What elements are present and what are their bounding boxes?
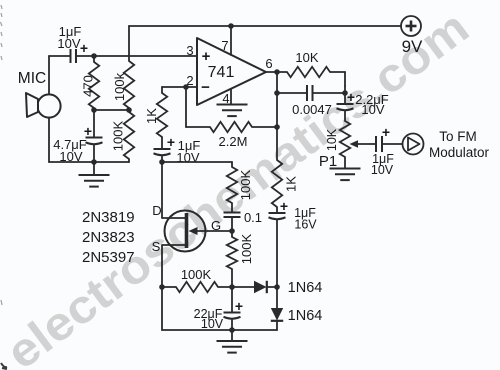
op-amp U1 741 [197, 38, 266, 105]
resistor R1 470 [89, 62, 99, 108]
label C6 value [371, 152, 394, 177]
wire to D1 [232, 286, 254, 288]
label pin3 [186, 43, 193, 58]
label pin6 [265, 56, 272, 71]
ground left [79, 175, 110, 187]
node R9 bottom [229, 284, 235, 290]
svg-text:100K: 100K [181, 267, 212, 282]
resistor R7 1K [272, 160, 282, 207]
label MIC [18, 70, 46, 87]
wire R2 bottom stub [128, 108, 130, 110]
wire C3 bottom [161, 156, 163, 163]
label 0.1 [244, 210, 262, 225]
label C5 value [355, 92, 389, 117]
label 1N64 upper [288, 280, 323, 296]
label C2 value [53, 137, 87, 164]
wire bottom rail [162, 287, 277, 330]
wire R4 to C3 [161, 137, 163, 148]
plus C6 [382, 124, 390, 140]
label P1 [319, 153, 337, 170]
label To FM Modulator [429, 129, 490, 160]
svg-text:1N64: 1N64 [288, 308, 323, 324]
svg-text:D: D [152, 203, 161, 218]
wire bottom-left rail [49, 161, 129, 163]
node cap/R1 junction [91, 53, 97, 59]
wire source vert [161, 245, 163, 287]
wire gate to R9 [231, 231, 233, 237]
svg-text:100K: 100K [111, 120, 126, 151]
label 9V [402, 37, 423, 56]
node bottom rail gnd [229, 327, 235, 333]
svg-text:10K: 10K [295, 50, 318, 65]
label pin7 [221, 38, 228, 53]
wire 2.2M left vert [185, 87, 187, 127]
label 100K bottom [181, 267, 212, 282]
wire R1-R2 bottoms [94, 109, 129, 111]
label 0.0047 [292, 102, 332, 117]
capacitor C6 1uF out [376, 136, 382, 152]
wire R7 to C7 [276, 207, 278, 212]
svg-text:+: + [382, 124, 390, 140]
plus C3 [167, 134, 175, 150]
svg-text:+: + [202, 48, 211, 65]
resistor R4 1K [157, 93, 167, 137]
ground bottom [217, 341, 248, 353]
wire R2 top from rail [128, 26, 130, 61]
svg-text:10V: 10V [57, 36, 80, 51]
node R2 bottom [126, 107, 132, 113]
potentiometer P1 10K [340, 121, 350, 157]
pot wiper arrow [350, 140, 377, 148]
label 2.2M [219, 134, 248, 149]
node source bottom [159, 284, 165, 290]
label pin4 [222, 91, 229, 106]
wire R1 top stub [93, 56, 95, 62]
wire C4 right lead [313, 92, 346, 94]
wire R8 to C8 [231, 203, 233, 212]
svg-text:10K: 10K [325, 128, 339, 151]
node 2.2M right [274, 124, 280, 130]
wire R9 bottom [231, 269, 233, 287]
capacitor C4 0.0047 [307, 85, 313, 101]
wire mic top [48, 56, 50, 94]
svg-text:Modulator: Modulator [429, 145, 490, 160]
svg-text:10V: 10V [201, 317, 224, 331]
wire gnd stem left [93, 162, 95, 175]
node gnd-left junction [91, 159, 97, 165]
wire 2.2M left [186, 126, 210, 128]
wire D2 bottom [276, 321, 278, 330]
svg-text:2.2M: 2.2M [219, 134, 248, 149]
label 1K left [144, 108, 159, 124]
wire R3 bottom stub [128, 159, 130, 162]
transistor Q1 JFET [162, 211, 206, 252]
svg-text:MIC: MIC [18, 70, 46, 87]
node diodes junction [274, 284, 280, 290]
svg-text:741: 741 [208, 64, 235, 81]
capacitor C8 0.1 [224, 213, 241, 218]
plus C9 [235, 298, 243, 314]
wire C7 bottom [276, 220, 278, 288]
plus C5 [347, 89, 355, 105]
label C7 value [294, 206, 317, 232]
wire pin4 [230, 89, 232, 104]
svg-text:+: + [347, 89, 355, 105]
wire 10K right [330, 72, 345, 86]
microphone MIC symbol [26, 93, 61, 118]
battery B1 9V [401, 16, 421, 36]
svg-text:16V: 16V [294, 218, 317, 232]
diode D1 1N64 [254, 281, 267, 293]
label S [152, 239, 161, 254]
svg-text:10V: 10V [371, 163, 394, 177]
resistor R10 100K [176, 282, 218, 292]
node R1 bottom [91, 107, 97, 113]
plus C1 [80, 40, 88, 56]
diode D2 1N64 [271, 287, 283, 321]
wire drain vert [161, 162, 163, 218]
wire D1 to node [267, 286, 277, 288]
label 100K mid-lower [239, 233, 254, 264]
wire V+ rail [129, 25, 401, 27]
svg-text:10V: 10V [361, 102, 384, 117]
resistor R2 100k [124, 61, 134, 108]
wire C1 to pin3 [76, 55, 197, 57]
node pin2 junction [183, 84, 189, 90]
wire output [266, 71, 287, 73]
svg-text:100K: 100K [238, 169, 253, 200]
wire mid branch top [162, 161, 232, 163]
svg-text:1K: 1K [284, 176, 299, 192]
label C1 value [57, 24, 81, 51]
wire pot gnd stem [344, 157, 346, 169]
svg-text:3: 3 [186, 43, 193, 58]
connector to FM modulator [403, 134, 424, 155]
node C4 left [274, 90, 280, 96]
svg-text:100K: 100K [239, 233, 254, 264]
svg-text:+: + [80, 40, 88, 56]
label 2N3819 2N3823 2N5397 [82, 209, 135, 266]
wire C9 bottom [231, 319, 233, 330]
label 1N64 lower [288, 308, 323, 324]
label G [211, 218, 221, 233]
wire C2 bottom [93, 145, 95, 163]
capacitor C9 22uF [224, 313, 241, 319]
label 100k [112, 72, 127, 101]
resistor R5 2.2M [210, 122, 252, 132]
svg-text:2N3819: 2N3819 [82, 209, 135, 226]
label 470 [81, 75, 96, 97]
wire R10 left [162, 286, 176, 288]
svg-text:To FM: To FM [439, 129, 477, 144]
wire 2.2M right [252, 126, 277, 128]
capacitor C3 1uF [154, 149, 171, 155]
label D [152, 203, 161, 218]
ground op-amp [217, 105, 248, 117]
label C3 value [176, 138, 200, 165]
svg-text:G: G [211, 218, 221, 233]
wire pin7 [230, 26, 232, 55]
wire C6 to jack [382, 143, 403, 145]
label C9 value [194, 307, 224, 331]
label 100K mid-upper [238, 169, 253, 200]
svg-text:7: 7 [221, 38, 228, 53]
plus C2 [84, 123, 92, 139]
svg-text:0.0047: 0.0047 [292, 102, 332, 117]
svg-text:2N5397: 2N5397 [82, 249, 135, 266]
wire C4 left lead [277, 92, 307, 94]
wire pin2 [162, 86, 197, 88]
label 10K top [295, 50, 318, 65]
node pin7 rail [228, 23, 234, 29]
label 100K left [111, 120, 126, 151]
wire C8 bottom [231, 217, 233, 231]
svg-text:10V: 10V [59, 149, 82, 164]
svg-text:S: S [152, 239, 161, 254]
label 1K right [284, 176, 299, 192]
svg-text:−: − [201, 79, 210, 96]
wire out vert upper [276, 72, 278, 160]
svg-text:9V: 9V [402, 37, 423, 56]
svg-text:+: + [280, 198, 288, 214]
wire R1 bottom stub [93, 108, 95, 110]
svg-text:2N3823: 2N3823 [82, 229, 135, 246]
wire C5 top [344, 86, 346, 103]
capacitor C1 1uF input [71, 49, 77, 63]
node output 6 [274, 69, 280, 75]
ground pot [330, 169, 361, 181]
svg-text:0.1: 0.1 [244, 210, 262, 225]
wire C5 bottom [344, 111, 346, 122]
svg-text:6: 6 [265, 56, 272, 71]
label pin2 [186, 73, 193, 88]
wire gnd stem bottom [231, 330, 233, 341]
wire C9 top [231, 287, 233, 312]
wire R8 top stub [231, 162, 233, 167]
wire C2 top [93, 110, 95, 137]
wire mic to C1 [49, 55, 70, 57]
label 10K pot [325, 128, 339, 151]
capacitor C7 1uF 16V [269, 213, 286, 219]
node C3 bottom [159, 159, 165, 165]
resistor R3 100K [124, 112, 134, 159]
svg-text:470: 470 [81, 75, 96, 97]
svg-text:1N64: 1N64 [288, 280, 323, 296]
capacitor C5 2.2uF [337, 104, 354, 110]
svg-text:P1: P1 [319, 153, 337, 170]
wire R10 right [218, 286, 232, 288]
svg-text:100k: 100k [112, 72, 127, 101]
wire R4 bend [161, 87, 163, 93]
plus C7 [280, 198, 288, 214]
wire mic bottom [48, 118, 50, 162]
svg-text:+: + [167, 134, 175, 150]
scan edge marks [1, 5, 8, 369]
resistor R6 10K [287, 67, 330, 77]
wire gate [196, 230, 232, 232]
node C4 right [342, 90, 348, 96]
svg-text:1K: 1K [144, 108, 159, 124]
node gate junction [229, 228, 235, 234]
resistor R9 100K [227, 237, 237, 269]
capacitor C2 4.7uF [86, 138, 103, 145]
resistor R8 100K [227, 167, 237, 203]
